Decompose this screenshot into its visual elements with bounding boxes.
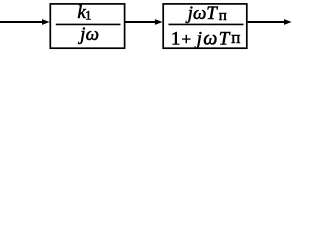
block W1 rectangle — [50, 4, 124, 48]
svg-text:ω: ω — [203, 27, 217, 49]
svg-text:п: п — [219, 8, 227, 24]
block W2 rectangle — [163, 4, 247, 48]
svg-text:ω: ω — [193, 3, 206, 24]
arrowhead into block W1 — [42, 19, 50, 25]
svg-text:ω: ω — [86, 24, 99, 45]
arrowhead output — [284, 19, 292, 25]
wire: input line — [0, 21, 43, 23]
svg-text:1: 1 — [85, 7, 92, 22]
fraction bar of W1 — [56, 23, 121, 25]
fraction bar of W2 — [169, 23, 244, 25]
arrowhead into block W2 — [155, 19, 163, 25]
svg-text:T: T — [206, 3, 218, 24]
svg-text:1: 1 — [171, 28, 181, 49]
svg-text:+: + — [182, 29, 192, 48]
wire: between blocks — [125, 21, 156, 23]
svg-text:п: п — [231, 28, 240, 47]
svg-text:T: T — [219, 28, 231, 49]
wire: output line — [248, 21, 285, 23]
